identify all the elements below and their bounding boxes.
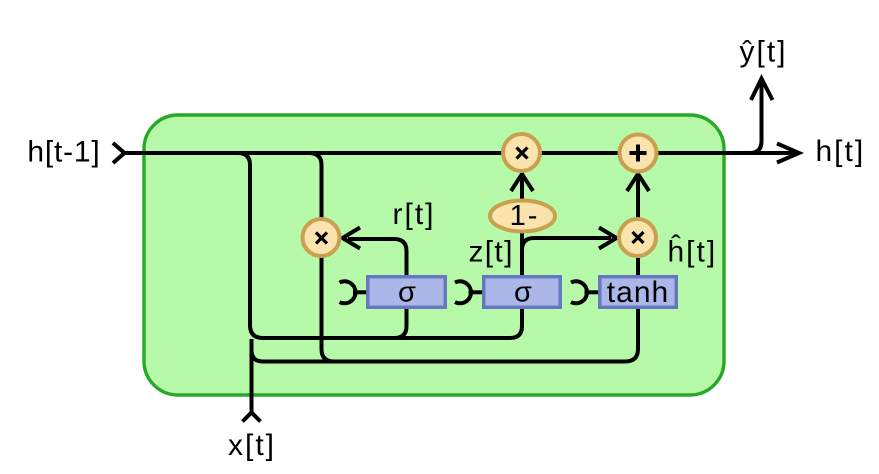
svg-text:1-: 1- — [510, 200, 540, 232]
svg-text:σ: σ — [398, 277, 416, 309]
svg-text:tanh: tanh — [607, 276, 669, 309]
svg-text:x[t]: x[t] — [228, 429, 276, 462]
svg-text:h[t-1]: h[t-1] — [27, 136, 100, 169]
svg-text:ŷ[t]: ŷ[t] — [739, 36, 787, 69]
svg-text:ĥ[t]: ĥ[t] — [668, 235, 718, 269]
svg-text:h[t]: h[t] — [816, 135, 866, 168]
svg-text:z[t]: z[t] — [469, 236, 514, 269]
svg-text:σ: σ — [514, 277, 532, 309]
svg-text:r[t]: r[t] — [393, 198, 436, 231]
